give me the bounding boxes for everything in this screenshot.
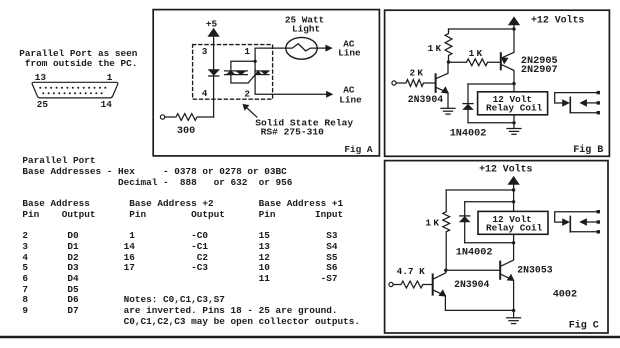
wire diode bottom B [468,122,514,124]
junction diode bottom C [512,241,515,244]
junction node C [444,269,447,272]
Q4 emitter [500,274,513,310]
ground Q1 [441,107,455,109]
resistor 300 [165,114,214,121]
wire pin 1 [255,48,286,61]
DB25 pins row 2 (14-25) [42,92,102,94]
Q2 emitter from +12 [502,29,514,58]
svg-text:2N3053: 2N3053 [517,265,552,276]
AC line arrow upper [326,45,332,50]
svg-text:Light: Light [292,23,320,34]
Fig B border [385,10,610,156]
ground relay B [507,128,521,130]
wire rail to 1K C [445,190,447,212]
transistor Q2 2N2905 base bar [500,53,502,69]
junction collector B [512,82,515,85]
svg-text:14: 14 [101,99,113,110]
Fig C border [385,161,608,333]
diode 1N4002 C [464,202,466,243]
wire +5 to resistor node [213,36,215,118]
wire relay to ground B [513,115,515,129]
input terminal B [392,81,396,85]
svg-text:1K: 1K [469,48,485,59]
resistor 1K C [443,212,450,271]
svg-text:Fig B: Fig B [573,144,603,156]
svg-text:4002: 4002 [553,289,577,300]
Q3 collector [433,270,446,279]
transistor Q3 2N3904 base bar C [432,275,434,295]
svg-text:+12 Volts: +12 Volts [479,164,532,175]
triac MT2 wire [231,61,255,83]
svg-text:2N3904: 2N3904 [408,94,443,105]
DB25 connector body [32,82,118,98]
SSR pointer arrow [246,107,257,117]
wire +12 rail B [449,28,515,30]
ground C [507,317,521,319]
input terminal C [389,282,393,286]
svg-text:2N2907: 2N2907 [521,65,558,76]
relay contacts C [555,212,597,222]
triac triangles [226,71,235,75]
relay contacts B [555,93,597,103]
svg-text:1K: 1K [428,43,444,54]
junction pin 1 [253,60,256,63]
svg-text:Fig C: Fig C [569,320,599,332]
svg-text:1: 1 [107,72,113,83]
junction bottom B [512,121,515,124]
svg-text:+5: +5 [206,19,218,30]
AC line arrow lower [327,92,333,97]
SSR dashed outline [193,45,273,100]
wire diode top C [465,201,514,203]
parallel port address and pin table [22,156,360,328]
LED input diode [209,70,219,75]
svg-text:2N3904: 2N3904 [454,279,489,290]
relay wire C [513,190,515,211]
DB25 pins row 1 (1-13) [39,87,106,89]
wire lamp to AC line [317,47,326,49]
wire to ground C [513,310,515,317]
diode 1N4002 B [467,84,469,123]
svg-text:Line: Line [338,47,361,58]
svg-text:2: 2 [244,89,250,100]
wire diode top B [468,83,514,85]
svg-text:4.7 K: 4.7 K [397,266,426,277]
junction node B [447,60,450,63]
wire +12 rail C [446,189,513,191]
svg-text:1N4002: 1N4002 [450,128,487,139]
lamp 25 watt [286,37,317,59]
junction +12 B [512,27,515,30]
junction +12 C [512,188,515,191]
Q4 collector [500,243,513,267]
bottom rule [0,336,620,338]
wire emitter to ground rail C [445,309,513,311]
svg-text:+12 Volts: +12 Volts [531,15,584,26]
resistor 2K [396,80,436,87]
Q3 emitter [433,290,446,311]
svg-text:25: 25 [37,99,49,110]
svg-text:1K: 1K [425,218,441,229]
caption: Parallel Port as seen from outside the PC [19,49,137,70]
svg-text:1: 1 [244,46,250,57]
svg-text:3: 3 [202,46,208,57]
Q2 collector [502,65,514,92]
input terminal [160,115,164,119]
+12 arrow B [509,17,519,25]
triac gate lead [248,75,255,83]
wire node to Q4 base [446,269,500,271]
svg-text:RS# 275-310: RS# 275-310 [261,126,325,137]
svg-text:300: 300 [177,126,195,137]
svg-text:4: 4 [202,88,208,99]
svg-text:Relay Coil: Relay Coil [486,102,543,113]
resistor 1K horizontal B [449,59,501,66]
Q1 emitter [436,87,448,108]
resistor 4.7K [393,281,433,288]
junction diode top C [512,200,515,203]
relay coil box C [478,211,548,234]
svg-text:2K: 2K [410,67,426,78]
svg-text:Line: Line [339,95,362,106]
lamp filament [286,44,317,51]
wire pin 2 to AC line [255,61,327,94]
+12 arrow C [508,177,518,185]
triac rails [225,70,248,72]
svg-text:Fig A: Fig A [344,144,373,155]
Q1 collector [436,62,448,79]
transistor Q1 2N3904 base bar [435,74,437,92]
resistor 1K vertical B [445,29,452,62]
relay coil box B [478,92,548,115]
wire diode bottom C [465,242,514,244]
junction ground C [512,309,515,312]
svg-text:1N4002: 1N4002 [456,248,493,259]
svg-text:Relay Coil: Relay Coil [486,222,543,233]
+5 supply arrow [208,29,218,37]
transistor Q4 2N3053 base bar [499,262,501,279]
Fig A border [153,10,379,156]
svg-text:13: 13 [35,72,47,83]
